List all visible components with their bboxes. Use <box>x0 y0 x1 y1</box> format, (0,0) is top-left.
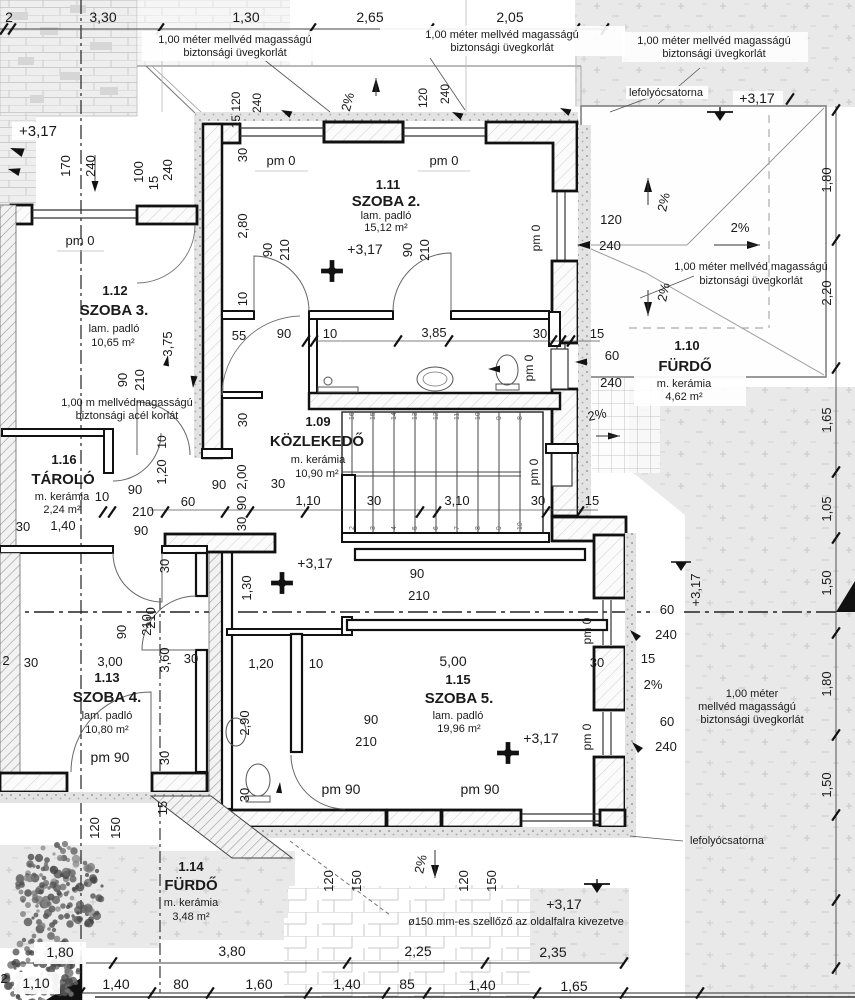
svg-text:2: 2 <box>349 526 356 530</box>
wall szoba5 east pier 3 hatched <box>594 757 625 825</box>
svg-text:2,25: 2,25 <box>404 943 431 959</box>
svg-text:1,40: 1,40 <box>333 976 360 992</box>
svg-text:8: 8 <box>517 416 524 420</box>
door box bathroom strip east <box>551 349 568 389</box>
speckle band below szoba5 south wall <box>222 827 636 838</box>
svg-text:240: 240 <box>160 159 175 181</box>
bathroom strip top wall left <box>309 311 393 319</box>
svg-text:1,10: 1,10 <box>295 493 320 508</box>
wall lower-left inner <box>222 552 232 809</box>
construction line v1 <box>161 29 163 112</box>
svg-text:biztonsági üvegkorlát: biztonsági üvegkorlát <box>700 714 803 726</box>
svg-text:3,85: 3,85 <box>421 325 446 340</box>
wall lower-left insulation band <box>209 552 222 827</box>
wall szoba5 south segment 1 <box>223 810 386 827</box>
svg-text:2,05: 2,05 <box>496 9 523 25</box>
tile floor furdo 1.10 <box>592 378 660 473</box>
wall szoba4 east lower <box>196 650 207 772</box>
parapet speckle band above szoba2 <box>195 112 578 121</box>
svg-text:TÁROLÓ: TÁROLÓ <box>31 470 95 488</box>
elevation T mark terrace top <box>707 107 733 121</box>
svg-text:240: 240 <box>600 375 622 390</box>
svg-text:30: 30 <box>234 517 249 531</box>
svg-text:lam. padló: lam. padló <box>361 210 412 222</box>
svg-text:6: 6 <box>433 526 440 530</box>
window pier hatched south <box>387 810 441 827</box>
stair left wall lower flight <box>342 475 355 533</box>
svg-text:+3,17: +3,17 <box>523 730 559 746</box>
right dimension chain <box>835 106 837 975</box>
svg-text:60: 60 <box>605 348 619 363</box>
svg-text:pm 0: pm 0 <box>580 723 594 750</box>
svg-text:90: 90 <box>260 243 275 257</box>
svg-text:16: 16 <box>349 412 356 420</box>
diagonal wall band to bathroom 1.14 <box>151 796 292 858</box>
svg-text:14: 14 <box>391 412 398 420</box>
corridor north hatched wall <box>309 393 560 409</box>
wall divider szoba2-szoba3 <box>203 124 222 458</box>
svg-text:m. kerámia: m. kerámia <box>291 454 346 466</box>
svg-text:1,05: 1,05 <box>819 496 834 521</box>
svg-text:lam. padló: lam. padló <box>433 710 484 722</box>
wall szoba4 top left segment <box>0 546 113 553</box>
svg-text:10: 10 <box>323 326 337 341</box>
corridor south long wall <box>355 549 585 560</box>
leader line lefolyo top <box>610 98 648 112</box>
svg-text:1,40: 1,40 <box>102 976 129 992</box>
arrow szoba4 door <box>163 354 171 366</box>
svg-text:10: 10 <box>155 435 169 449</box>
arrow small bath door <box>276 782 283 793</box>
toilet small bathroom <box>246 764 270 796</box>
svg-text:2,90: 2,90 <box>237 710 252 735</box>
window arrow top 2 <box>451 109 464 120</box>
svg-text:1,40: 1,40 <box>468 977 495 993</box>
svg-text:1,00 méter mellvéd magasságú: 1,00 méter mellvéd magasságú <box>674 261 827 273</box>
svg-text:+3,17: +3,17 <box>546 896 582 912</box>
svg-text:5: 5 <box>412 526 419 530</box>
svg-text:240: 240 <box>250 93 264 113</box>
wall szoba4 west insulation <box>0 553 20 792</box>
ground texture bathroom 1.14 surroundings <box>160 851 295 940</box>
ground texture bottom-left <box>0 845 160 948</box>
window glazing top-right window <box>403 127 485 129</box>
toilet bathroom strip <box>496 355 518 385</box>
svg-text:pm 0: pm 0 <box>430 153 459 168</box>
svg-text:1,00 méter mellvéd magasságú: 1,00 méter mellvéd magasságú <box>637 35 790 47</box>
window szoba5 east 2 <box>602 712 604 755</box>
construction line v4 <box>575 29 577 106</box>
svg-text:210: 210 <box>355 734 377 749</box>
svg-text:3,30: 3,30 <box>89 9 116 25</box>
benchmark cross corridor <box>271 572 293 594</box>
svg-text:90: 90 <box>134 523 148 538</box>
svg-text:15: 15 <box>146 176 161 190</box>
ground texture patch right of paving <box>529 888 629 962</box>
wall szoba5 east pier 1 hatched <box>594 535 625 598</box>
arrow left edge second <box>7 165 21 176</box>
vertical axis line A <box>80 0 82 978</box>
svg-text:SZOBA 3.: SZOBA 3. <box>80 302 149 319</box>
svg-text:15: 15 <box>590 326 604 341</box>
svg-text:5,00: 5,00 <box>439 653 466 669</box>
svg-text:240: 240 <box>655 739 677 754</box>
door arc szoba2 bathroom <box>393 253 451 311</box>
svg-text:10,80 m²: 10,80 m² <box>85 724 129 736</box>
svg-text:3,00: 3,00 <box>97 654 122 669</box>
svg-text:SZOBA 5.: SZOBA 5. <box>425 690 494 707</box>
window pier szoba3 top hatched <box>137 206 197 224</box>
svg-text:10: 10 <box>309 656 323 671</box>
svg-text:lam. padló: lam. padló <box>89 323 140 335</box>
svg-text:1,00 méter mellvéd magasságú: 1,00 méter mellvéd magasságú <box>425 29 578 41</box>
construction line v3 <box>465 0 467 112</box>
speckle band below szoba4 <box>0 792 211 803</box>
svg-text:1,20: 1,20 <box>248 656 273 671</box>
svg-text:210: 210 <box>132 369 147 391</box>
svg-text:1,65: 1,65 <box>819 407 834 432</box>
svg-text:m. kerámia: m. kerámia <box>35 491 90 503</box>
svg-text:90: 90 <box>234 496 249 510</box>
wall szoba4 top right segment <box>162 546 207 553</box>
svg-text:pm 0: pm 0 <box>580 617 594 644</box>
svg-text:FÜRDŐ: FÜRDŐ <box>164 876 218 894</box>
door arc tarolo <box>113 433 161 481</box>
wall jog corridor southeast <box>552 517 626 541</box>
speckle band outside east wall <box>578 125 591 517</box>
svg-text:30: 30 <box>271 476 285 491</box>
svg-text:11: 11 <box>454 413 461 420</box>
window east stairs <box>552 453 572 486</box>
svg-text:1.14: 1.14 <box>178 859 204 874</box>
slope arrow bottom szoba5 <box>431 865 439 878</box>
terrace outline <box>581 106 826 377</box>
svg-text:lam. padló: lam. padló <box>82 710 133 722</box>
arrow top-left wall corner <box>190 376 198 389</box>
svg-text:4: 4 <box>391 526 398 530</box>
svg-text:120: 120 <box>456 870 471 892</box>
label +3,17 terrace top <box>733 91 783 105</box>
svg-text:3,10: 3,10 <box>444 493 469 508</box>
leader line szellozo <box>290 841 390 915</box>
svg-text:30: 30 <box>590 655 604 670</box>
svg-text:mellvéd magasságú: mellvéd magasságú <box>698 701 796 713</box>
svg-text:30: 30 <box>184 651 198 666</box>
svg-text:30: 30 <box>531 493 545 508</box>
svg-text:1,00 méter: 1,00 méter <box>726 688 779 700</box>
svg-text:240: 240 <box>655 627 677 642</box>
slope arrow terrace down <box>644 302 652 316</box>
svg-text:30: 30 <box>157 751 172 765</box>
elevation T mark bottom <box>584 879 610 893</box>
guard rail note top-right <box>622 32 808 62</box>
svg-text:8: 8 <box>475 526 482 530</box>
svg-text:90: 90 <box>410 566 424 581</box>
terrace roof hip line W <box>582 245 646 273</box>
wall szoba5 north <box>347 620 607 630</box>
svg-text:+3,17: +3,17 <box>688 574 703 607</box>
brick texture top-left block <box>0 0 137 116</box>
paving grid bottom middle <box>288 886 530 998</box>
svg-text:2: 2 <box>2 653 9 668</box>
window szoba5 east 1 <box>602 600 604 645</box>
svg-text:90: 90 <box>277 326 291 341</box>
door arc bathroom small <box>291 755 345 809</box>
svg-text:30: 30 <box>24 655 38 670</box>
label +3,17 left <box>12 122 64 140</box>
bottom dimension chain row2 <box>81 992 855 994</box>
svg-text:210: 210 <box>408 588 430 603</box>
wall east lower <box>552 389 578 516</box>
svg-text:15: 15 <box>370 412 377 420</box>
svg-text:240: 240 <box>83 155 98 177</box>
svg-text:150: 150 <box>349 870 364 892</box>
tile floor patch right <box>430 885 530 973</box>
elevation T mark right middle <box>671 562 691 571</box>
vertical axis line B <box>159 598 161 993</box>
svg-text:210: 210 <box>417 239 432 261</box>
svg-text:240: 240 <box>438 84 452 104</box>
svg-text:15 120: 15 120 <box>229 91 243 128</box>
arrow east lower 2 <box>630 740 643 753</box>
slope arrow szoba5 right edge <box>608 433 620 440</box>
svg-text:60: 60 <box>660 714 674 729</box>
svg-text:lefolyócsatorna: lefolyócsatorna <box>690 835 765 847</box>
window szoba3 top glazing <box>32 209 137 211</box>
svg-text:150: 150 <box>108 817 123 839</box>
construction line v2 <box>311 29 313 66</box>
tree lower bottom-left <box>2 932 81 1000</box>
tree upper bottom-left <box>15 841 104 933</box>
svg-text:1,30: 1,30 <box>239 575 254 600</box>
svg-text:2: 2 <box>0 971 7 986</box>
window pier hatched top <box>324 122 403 142</box>
svg-text:85: 85 <box>399 976 415 992</box>
svg-text:120: 120 <box>416 88 430 108</box>
svg-text:1.09: 1.09 <box>305 414 330 429</box>
ground texture bottom-right corner <box>685 869 855 997</box>
bathroom strip east elbow <box>549 312 560 346</box>
svg-text:7: 7 <box>454 526 461 530</box>
north tick top <box>372 78 380 92</box>
svg-text:2,00: 2,00 <box>234 464 249 489</box>
svg-text:170: 170 <box>58 155 73 177</box>
arrow left edge plus317 <box>8 144 24 157</box>
wall top szoba2 right corner L <box>486 122 577 191</box>
svg-text:90: 90 <box>400 243 415 257</box>
svg-text:90: 90 <box>114 625 129 639</box>
svg-text:55: 55 <box>232 328 246 343</box>
svg-text:1.10: 1.10 <box>674 338 699 353</box>
svg-text:15: 15 <box>155 801 170 815</box>
leader line guard text 2 <box>430 58 465 110</box>
svg-text:1,50: 1,50 <box>819 772 834 797</box>
svg-text:pm 90: pm 90 <box>461 781 500 797</box>
door arc szoba3 balcony <box>137 225 195 283</box>
svg-text:pm 0: pm 0 <box>267 153 296 168</box>
construction line h1 <box>580 66 582 106</box>
svg-text:ø150 mm-es szellőző az oldalfa: ø150 mm-es szellőző az oldalfalra kiveze… <box>408 916 624 928</box>
svg-text:19,96 m²: 19,96 m² <box>437 723 481 735</box>
washbasin bathroom strip <box>417 367 453 391</box>
svg-text:pm 0: pm 0 <box>529 224 543 251</box>
svg-text:80: 80 <box>173 976 189 992</box>
leader line guard text 3 <box>658 68 700 104</box>
svg-text:2,35: 2,35 <box>539 944 566 960</box>
wall szoba5 south segment 2 <box>442 810 521 827</box>
svg-text:2,65: 2,65 <box>356 9 383 25</box>
svg-text:m. kerámia: m. kerámia <box>657 378 712 390</box>
svg-text:2%: 2% <box>731 220 750 235</box>
svg-text:60: 60 <box>181 494 195 509</box>
svg-text:1.11: 1.11 <box>376 177 401 192</box>
svg-text:1,80: 1,80 <box>46 944 73 960</box>
svg-text:30: 30 <box>16 519 30 534</box>
arrow 240 left terrace <box>577 241 590 249</box>
arrow east wall 60 <box>575 359 587 366</box>
label lefolyocsatorna top <box>626 86 708 99</box>
bottom dimension chain row1 <box>20 962 624 964</box>
svg-text:3,80: 3,80 <box>218 943 245 959</box>
svg-text:150: 150 <box>484 870 499 892</box>
svg-text:10,65 m²: 10,65 m² <box>91 337 135 349</box>
arrow bathroom strip <box>488 366 500 373</box>
svg-text:1,40: 1,40 <box>50 518 75 533</box>
wall corridor south T <box>165 534 275 552</box>
svg-text:1.13: 1.13 <box>94 670 119 685</box>
svg-text:1.16: 1.16 <box>51 452 76 467</box>
svg-text:1,80: 1,80 <box>819 671 834 696</box>
speckle band west of szoba2 wall <box>194 115 203 458</box>
wall east mid <box>552 261 578 343</box>
balcony edge diagonal <box>146 66 196 114</box>
wall top szoba2 left segment <box>203 124 240 143</box>
terrace roof ridge <box>582 244 687 246</box>
wall corridor west channel <box>222 392 262 398</box>
arrow below 240 label <box>92 181 99 192</box>
svg-text:1,50: 1,50 <box>819 570 834 595</box>
wall stub bathroom <box>342 617 352 635</box>
top dimension chain <box>0 28 608 30</box>
svg-text:120: 120 <box>87 817 102 839</box>
ground texture right side <box>629 387 855 869</box>
svg-text:2,24 m²: 2,24 m² <box>43 504 81 516</box>
svg-text:2,80: 2,80 <box>235 213 250 238</box>
svg-text:10: 10 <box>475 412 482 420</box>
stair landing lines <box>342 471 521 473</box>
wall szoba4 south left <box>0 773 67 792</box>
window arrow top 1 <box>280 107 293 118</box>
svg-text:4,62 m²: 4,62 m² <box>665 391 703 403</box>
svg-text:10: 10 <box>235 292 250 306</box>
svg-text:pm 0: pm 0 <box>66 233 95 248</box>
door arc corridor west <box>222 316 300 395</box>
stair step numbers lower <box>349 522 524 530</box>
svg-text:m. kerámia: m. kerámia <box>164 897 219 909</box>
svg-text:1,00 méter mellvéd magasságú: 1,00 méter mellvéd magasságú <box>158 34 311 46</box>
wall szoba3 top corner <box>11 205 32 224</box>
terrace dashed guard line vertical <box>768 115 770 328</box>
svg-text:+3,17: +3,17 <box>739 90 775 106</box>
arrow east lower <box>628 628 641 641</box>
axis end triangle bottom-left <box>46 978 81 1000</box>
balcony top edge line <box>137 65 581 67</box>
washbasin small bathroom <box>226 718 246 746</box>
svg-text:1,60: 1,60 <box>245 976 272 992</box>
svg-text:+3,17: +3,17 <box>297 555 333 571</box>
svg-text:biztonsági üvegkorlát: biztonsági üvegkorlát <box>662 48 765 60</box>
axis end triangle right <box>836 581 855 612</box>
svg-text:pm 0: pm 0 <box>527 458 541 485</box>
svg-text:10: 10 <box>95 489 109 504</box>
svg-text:15,12 m²: 15,12 m² <box>364 222 408 234</box>
brick darker cells <box>8 12 28 20</box>
svg-text:biztonsági üvegkorlát: biztonsági üvegkorlát <box>699 275 802 287</box>
bottom border line <box>95 996 855 998</box>
speckle band outside szoba5 east wall <box>625 533 636 832</box>
svg-text:1,10: 1,10 <box>22 975 49 991</box>
guard rail note top-middle <box>380 26 625 56</box>
svg-text:30: 30 <box>237 788 252 802</box>
svg-text:3,48 m²: 3,48 m² <box>172 911 210 923</box>
svg-text:30: 30 <box>157 559 172 573</box>
svg-text:210: 210 <box>139 614 154 636</box>
svg-text:100: 100 <box>131 161 146 183</box>
leader line guard right <box>640 276 694 298</box>
corridor dimension line <box>150 509 598 511</box>
door arc szoba2 left <box>254 256 309 311</box>
slope arrow terrace right <box>747 241 760 249</box>
stair wall elbow <box>546 444 578 453</box>
terrace roof hip line NE <box>687 108 824 245</box>
window east 1 glazing <box>556 192 558 260</box>
window szoba5 south glazing <box>522 813 600 815</box>
svg-text:1,20: 1,20 <box>154 459 169 484</box>
door arc szoba4 south <box>71 692 151 772</box>
svg-text:90: 90 <box>212 477 226 492</box>
svg-text:2: 2 <box>5 9 13 25</box>
door arc szoba4 east <box>142 596 196 650</box>
svg-text:13: 13 <box>412 412 419 420</box>
svg-text:90: 90 <box>364 712 378 727</box>
bathroom strip dimension line <box>313 340 600 342</box>
svg-text:FÜRDŐ: FÜRDŐ <box>658 357 712 375</box>
svg-text:30: 30 <box>235 413 250 427</box>
benchmark cross szoba5 <box>497 742 519 764</box>
svg-text:SZOBA 2.: SZOBA 2. <box>352 193 421 210</box>
wall szoba5 east pier 2 hatched <box>594 647 625 710</box>
svg-text:KÖZLEKEDŐ: KÖZLEKEDŐ <box>270 432 365 450</box>
svg-text:3,60: 3,60 <box>157 647 172 672</box>
white patch behind furdo 1.10 label <box>634 376 746 406</box>
svg-text:2%: 2% <box>644 677 663 692</box>
svg-text:1,65: 1,65 <box>560 978 587 994</box>
svg-text:60: 60 <box>660 602 674 617</box>
wall szoba4 east upper <box>196 553 207 596</box>
svg-text:+3,17: +3,17 <box>19 123 57 140</box>
svg-text:1.15: 1.15 <box>445 672 470 687</box>
door arc szoba4 north <box>113 553 162 602</box>
wall szoba5 south segment 3 <box>600 810 625 827</box>
leader line guard text 1 <box>262 58 330 112</box>
tile floor patch left <box>284 918 382 998</box>
svg-text:12: 12 <box>433 412 440 420</box>
svg-text:pm 90: pm 90 <box>322 781 361 797</box>
horizontal main axis line <box>0 611 838 613</box>
door arc szoba3 <box>137 402 190 455</box>
bottom dims row1 <box>34 942 86 964</box>
svg-text:biztonsági üvegkorlát: biztonsági üvegkorlát <box>183 47 286 59</box>
